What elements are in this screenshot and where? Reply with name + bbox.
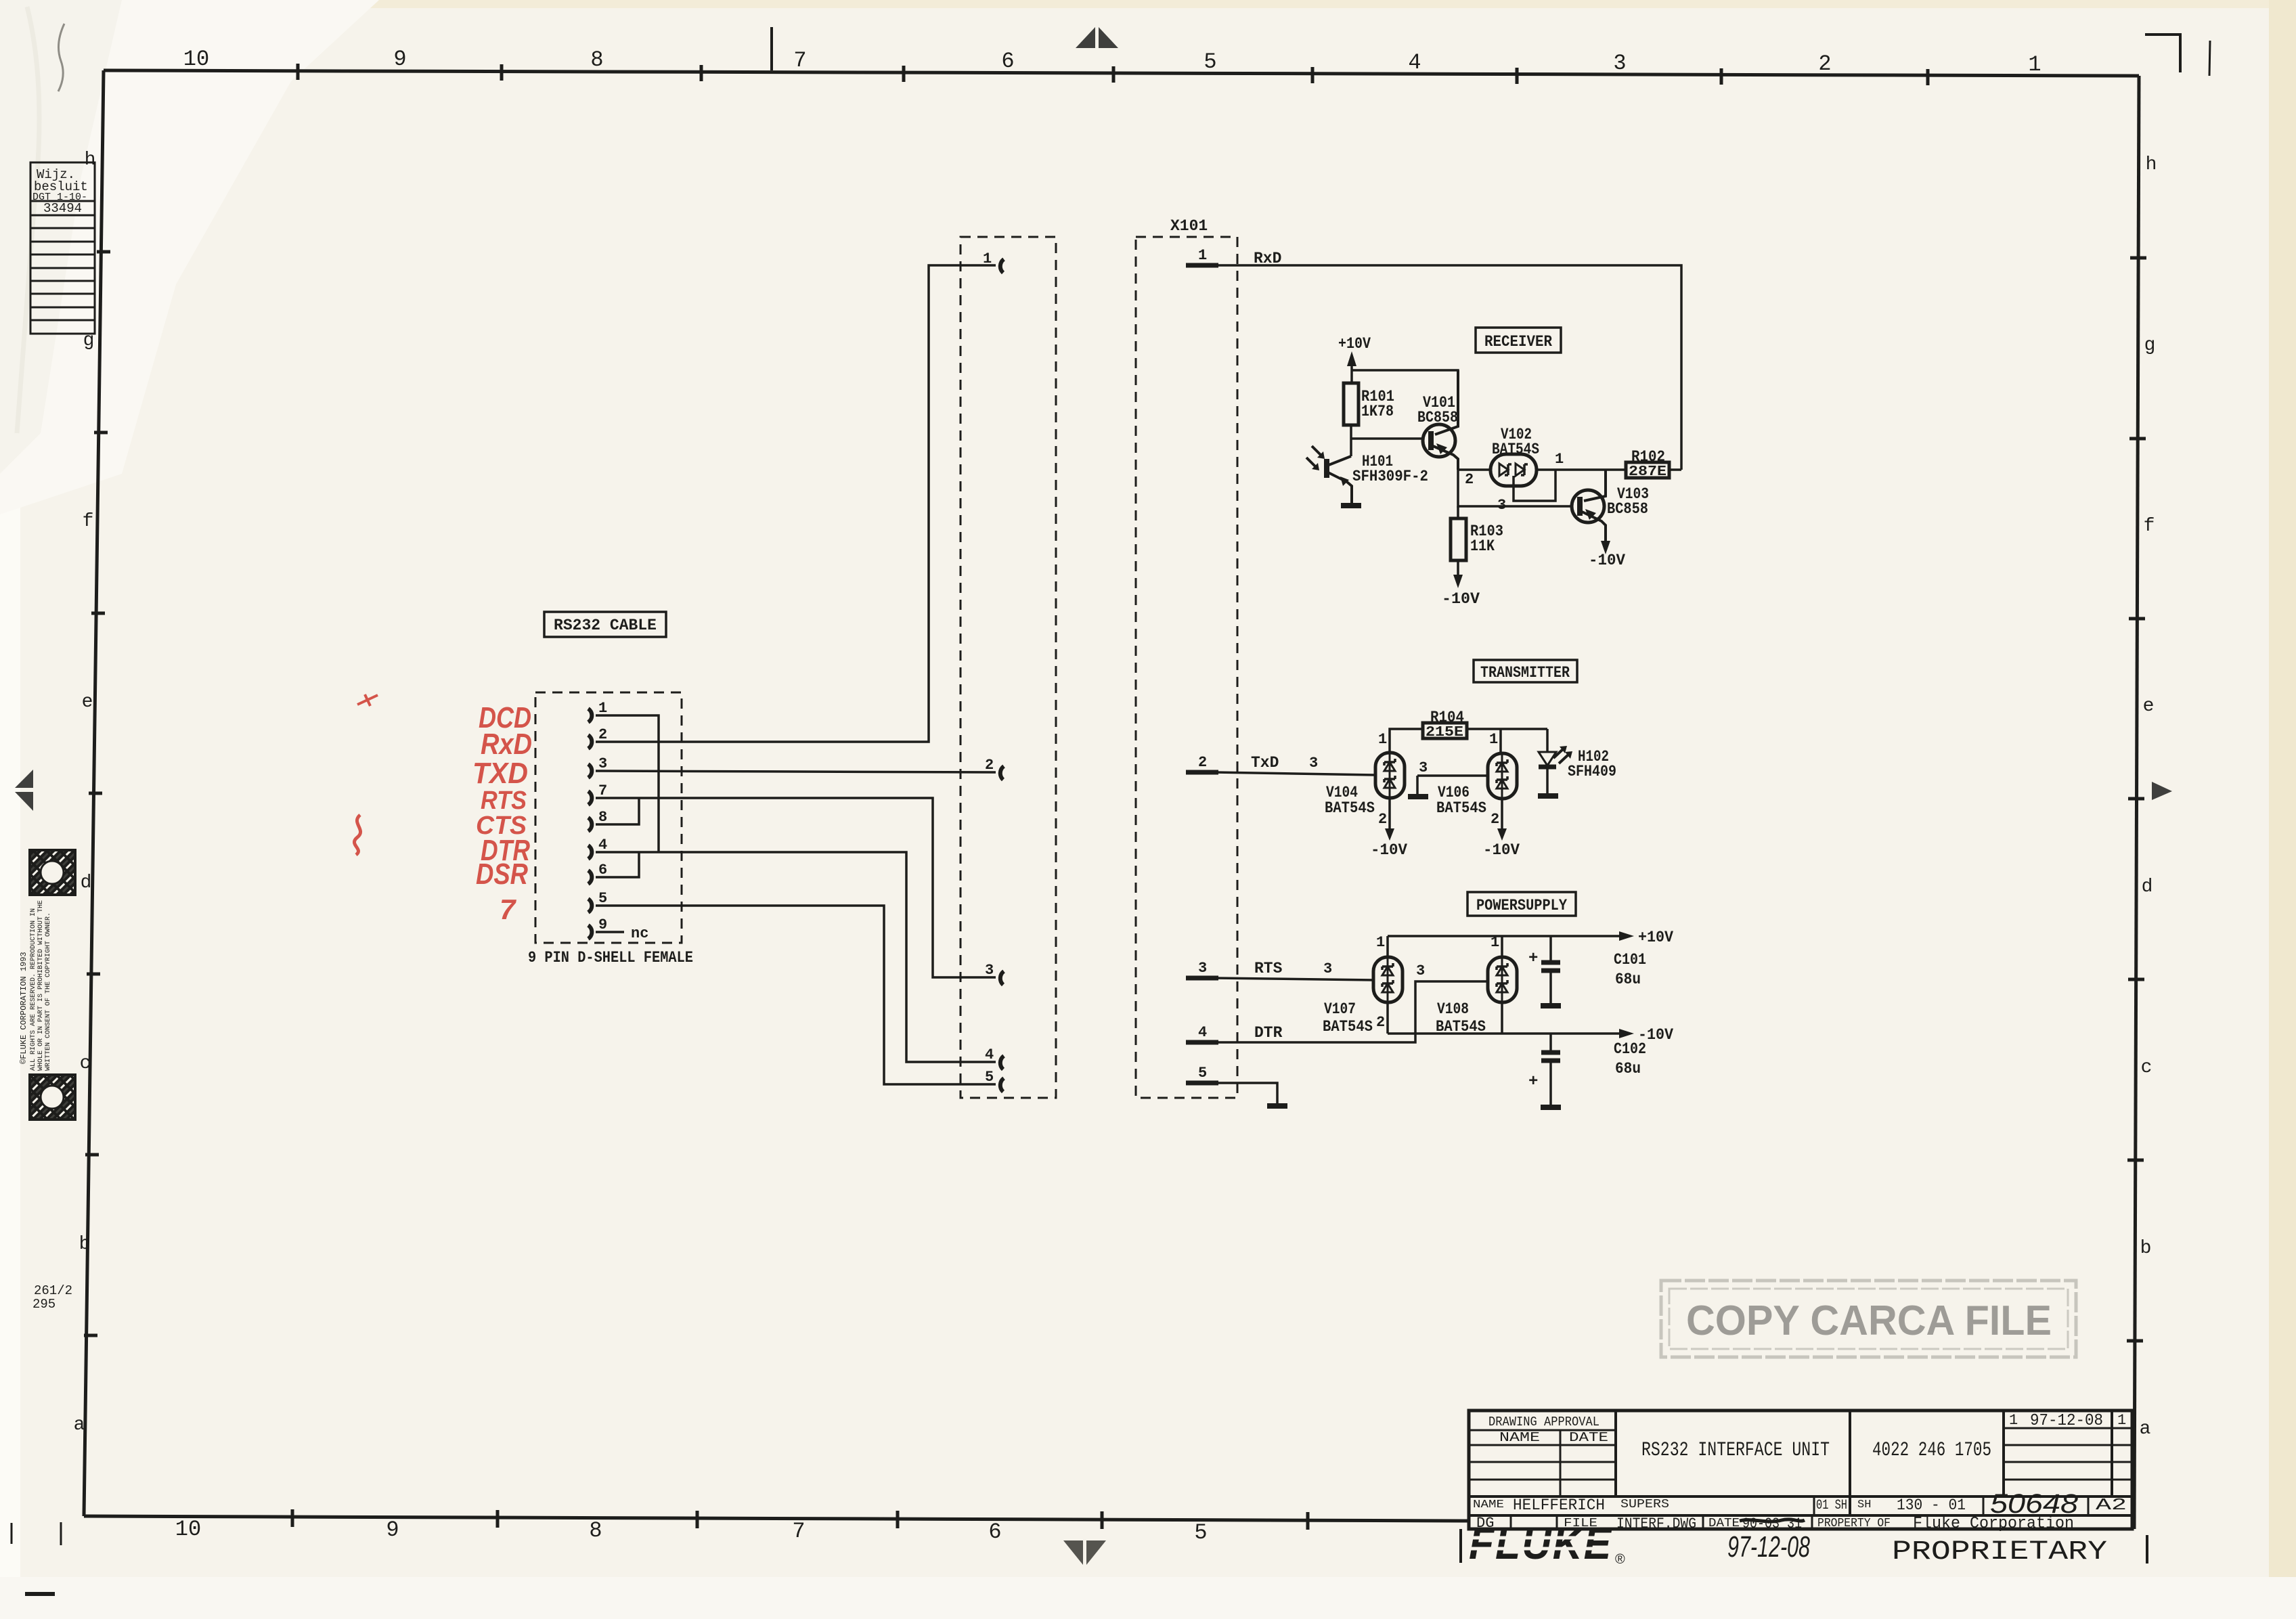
svg-text:1K78: 1K78 xyxy=(1361,403,1394,420)
wire R103 to -10V xyxy=(1457,560,1459,575)
svg-text:BAT54S: BAT54S xyxy=(1436,799,1486,817)
right zone letters xyxy=(2140,154,2157,1440)
svg-text:4022 246 1705: 4022 246 1705 xyxy=(1872,1439,1991,1462)
wire X101 pin1 RxD net to receiver xyxy=(1215,265,1681,470)
D-shell pin 5 xyxy=(588,899,592,912)
wire pin4 to pin6 link xyxy=(596,852,639,877)
svg-text:COPY CARCA FILE: COPY CARCA FILE xyxy=(1686,1298,2052,1344)
svg-text:33494: 33494 xyxy=(43,201,82,216)
wire pin7 to pin8 link xyxy=(596,798,639,824)
bottom row dividers xyxy=(1511,1515,1812,1529)
copyright notice (rotated) xyxy=(19,900,52,1071)
svg-text:WRITTEN CONSENT OF THE COPYRIG: WRITTEN CONSENT OF THE COPYRIGHT OWNER. xyxy=(45,912,52,1071)
svg-text:DTR: DTR xyxy=(1254,1024,1283,1042)
svg-text:295: 295 xyxy=(32,1297,56,1312)
capacitor C102 xyxy=(1549,1034,1552,1051)
D-shell pin 1 xyxy=(588,709,592,722)
svg-text:5: 5 xyxy=(1198,1065,1207,1082)
svg-text:-10V: -10V xyxy=(1442,590,1480,608)
D-shell pin 7 xyxy=(588,791,592,805)
resistor R101 xyxy=(1344,383,1359,425)
wire R104 to V106 pin1 and H102 xyxy=(1467,728,1547,730)
FLUKE logo xyxy=(1467,1518,1625,1569)
svg-text:ALL RIGHTS ARE RESERVED. REPRO: ALL RIGHTS ARE RESERVED. REPRODUCTION IN xyxy=(30,908,37,1071)
svg-text:68u: 68u xyxy=(1615,1060,1641,1078)
svg-text:+: + xyxy=(1528,950,1538,968)
wire X101 pin5 to ground xyxy=(1215,1083,1277,1104)
svg-text:130 - 01: 130 - 01 xyxy=(1897,1496,1966,1514)
connector X101 (dashed outline) xyxy=(1136,237,1237,1098)
top centre arrows xyxy=(1076,27,1095,48)
svg-text:9: 9 xyxy=(386,1517,399,1543)
wire D-shell pin7 to cable pin3 xyxy=(596,798,996,977)
wire V104 pin2 to -10V xyxy=(1388,798,1391,828)
wire D-shell pin3 to cable pin2 xyxy=(596,771,996,772)
revision table top-left xyxy=(30,162,95,334)
right border ticks xyxy=(2127,258,2146,1341)
wire D-shell pin1 to pin4 junction xyxy=(596,715,659,852)
svg-text:97-12-08: 97-12-08 xyxy=(2030,1412,2103,1430)
svg-text:4: 4 xyxy=(1408,50,1421,75)
svg-text:9: 9 xyxy=(393,47,406,72)
svg-text:NAME: NAME xyxy=(1473,1499,1504,1511)
svg-text:c: c xyxy=(80,1053,91,1074)
wire X101 pin4 DTR to V108 pin3 xyxy=(1215,981,1488,1042)
svg-text:3: 3 xyxy=(1198,960,1207,977)
svg-text:SFH309F-2: SFH309F-2 xyxy=(1352,468,1428,485)
svg-text:TxD: TxD xyxy=(1251,754,1279,772)
wire V106 pin3 to ground xyxy=(1417,774,1488,777)
title block texts xyxy=(1473,1412,2127,1533)
svg-text:g: g xyxy=(2144,335,2156,356)
D-shell pin 8 xyxy=(588,818,592,831)
svg-text:nc: nc xyxy=(631,925,648,942)
svg-text:TXD: TXD xyxy=(472,757,528,790)
svg-text:a: a xyxy=(74,1415,85,1436)
svg-text:4: 4 xyxy=(985,1046,994,1063)
svg-text:287E: 287E xyxy=(1629,464,1666,480)
svg-text:X101: X101 xyxy=(1170,217,1208,235)
svg-text:SUPERS: SUPERS xyxy=(1620,1498,1669,1511)
svg-text:e: e xyxy=(82,692,93,713)
svg-text:1: 1 xyxy=(2009,1412,2018,1429)
wire V101 emitter node 2 xyxy=(1458,468,1491,471)
svg-text:®: ® xyxy=(1615,1552,1625,1567)
dual diode V106 BAT54S xyxy=(1488,753,1517,799)
X101 pin 3 stub xyxy=(1186,976,1218,981)
svg-text:+10V: +10V xyxy=(1638,929,1673,946)
bottom centre arrows xyxy=(1063,1540,1083,1565)
svg-text:2: 2 xyxy=(985,757,994,774)
svg-text:V108: V108 xyxy=(1437,1000,1469,1018)
red tick mark xyxy=(357,694,378,706)
svg-text:2: 2 xyxy=(1818,51,1831,76)
svg-text:RECEIVER: RECEIVER xyxy=(1484,333,1552,351)
wire D-shell pin5 to cable pin5 xyxy=(596,906,996,1084)
svg-text:1: 1 xyxy=(983,250,992,267)
ground H102 xyxy=(1538,793,1558,799)
FLUKE logo separator xyxy=(1459,1529,1462,1563)
dual diode V102 BAT54S xyxy=(1491,454,1537,486)
X101 pin 4 stub xyxy=(1186,1040,1218,1045)
hatched square upper xyxy=(30,850,75,895)
wire V106 pin2 to -10V xyxy=(1501,799,1503,828)
svg-text:261/2: 261/2 xyxy=(34,1283,72,1298)
transistor V101 BC858 (PNP) xyxy=(1423,424,1455,457)
svg-text:7: 7 xyxy=(792,1519,805,1544)
resistor R102 xyxy=(1626,462,1669,478)
svg-text:BAT54S: BAT54S xyxy=(1436,1018,1486,1036)
svg-text:BC858: BC858 xyxy=(1607,500,1648,518)
svg-text:Fluke Corporation: Fluke Corporation xyxy=(1913,1515,2074,1533)
ground H101 emitter xyxy=(1341,503,1361,508)
svg-text:3: 3 xyxy=(1309,755,1318,772)
svg-text:3: 3 xyxy=(1613,51,1626,76)
svg-text:BAT54S: BAT54S xyxy=(1325,799,1375,817)
wire V107 pin2 to -10V rail xyxy=(1386,1002,1389,1034)
left edge centre arrow xyxy=(15,770,33,788)
svg-text:68u: 68u xyxy=(1615,971,1641,988)
svg-text:f: f xyxy=(83,511,94,532)
svg-text:5: 5 xyxy=(1194,1520,1207,1545)
svg-text:RS232 CABLE: RS232 CABLE xyxy=(554,617,657,634)
svg-text:©FLUKE CORPORATION 1993: ©FLUKE CORPORATION 1993 xyxy=(19,952,28,1064)
top-right corner register mark xyxy=(2145,35,2180,72)
svg-text:97-12-08: 97-12-08 xyxy=(1727,1530,1810,1563)
scribble over date xyxy=(1740,1520,1805,1522)
-10V arrow V106 xyxy=(1497,828,1507,841)
svg-text:C102: C102 xyxy=(1614,1040,1646,1058)
drawing frame border xyxy=(104,70,2139,76)
svg-text:V107: V107 xyxy=(1324,1000,1356,1018)
svg-text:R104: R104 xyxy=(1430,709,1464,726)
svg-text:2: 2 xyxy=(1376,1014,1385,1031)
connector cable-side (dashed outline) xyxy=(961,237,1056,1098)
ground C102 xyxy=(1541,1105,1561,1110)
X101 pin 5 stub xyxy=(1186,1081,1218,1086)
svg-text:10: 10 xyxy=(183,47,209,72)
+10V rail xyxy=(1388,935,1619,937)
-10V arrow V104 xyxy=(1385,828,1394,841)
svg-text:RS232 INTERFACE UNIT: RS232 INTERFACE UNIT xyxy=(1641,1439,1830,1462)
resistor R103 xyxy=(1451,518,1466,560)
pin 9 nc stub xyxy=(596,931,624,933)
svg-text:3: 3 xyxy=(598,755,607,772)
dual diode V104 BAT54S xyxy=(1375,753,1405,798)
svg-text:1: 1 xyxy=(1491,934,1499,951)
bottom zone numbers xyxy=(175,1517,1208,1545)
svg-text:2: 2 xyxy=(1465,471,1474,488)
svg-text:A2: A2 xyxy=(2096,1496,2127,1515)
svg-text:2: 2 xyxy=(1378,811,1387,828)
svg-text:RTS: RTS xyxy=(1254,960,1283,977)
svg-text:h: h xyxy=(2146,154,2157,175)
D-shell pin 6 xyxy=(588,870,592,884)
svg-text:1: 1 xyxy=(1489,731,1498,748)
wire R101 to base node xyxy=(1350,425,1352,439)
svg-text:WHOLE OR IN PART IS PROHIBITED: WHOLE OR IN PART IS PROHIBITED WITHOUT T… xyxy=(37,900,45,1071)
X101 pin 2 stub xyxy=(1186,770,1218,775)
svg-text:DSR: DSR xyxy=(476,858,528,891)
svg-text:7: 7 xyxy=(793,48,806,73)
svg-text:PROPRIETARY: PROPRIETARY xyxy=(1892,1537,2107,1568)
svg-text:215E: 215E xyxy=(1426,725,1463,740)
X101 pin 1 stub xyxy=(1186,263,1218,268)
dual diode V108 BAT54S xyxy=(1488,957,1517,1002)
svg-text:6: 6 xyxy=(988,1520,1001,1545)
svg-text:3: 3 xyxy=(985,962,994,979)
wire R102 to RxD riser xyxy=(1669,468,1681,471)
right date rows xyxy=(2004,1428,2132,1480)
svg-text:1: 1 xyxy=(1555,451,1564,468)
svg-text:1: 1 xyxy=(2117,1412,2126,1429)
-10V rail xyxy=(1388,1032,1619,1035)
svg-text:8: 8 xyxy=(590,47,603,72)
wire V104 pin1 to R104 xyxy=(1390,729,1423,753)
svg-text:2: 2 xyxy=(1491,811,1499,828)
transistor V103 BC858 (PNP) xyxy=(1572,490,1604,523)
wire +10V node to R101 and V101 collector xyxy=(1352,370,1458,425)
phototransistor H101 SFH309F-2 xyxy=(1324,459,1329,478)
wire D-shell pin4 to cable pin4 xyxy=(596,852,996,1062)
svg-text:1: 1 xyxy=(2028,52,2041,77)
ground V106 pin3 xyxy=(1408,794,1428,799)
row dividers SH / 50648 / A2 xyxy=(1814,1496,2088,1515)
svg-text:11K: 11K xyxy=(1470,537,1495,555)
svg-text:INTERF.DWG: INTERF.DWG xyxy=(1616,1515,1696,1532)
svg-text:RxD: RxD xyxy=(481,728,532,761)
capacitor C101 xyxy=(1549,936,1552,961)
wire V102 pin3 loop to node 1 xyxy=(1514,470,1555,501)
svg-text:NAME: NAME xyxy=(1499,1430,1540,1445)
top zone numbers xyxy=(183,47,2041,77)
H101 light arrows xyxy=(1306,446,1322,468)
svg-text:-10V: -10V xyxy=(1371,841,1407,859)
svg-text:a: a xyxy=(2140,1419,2151,1440)
svg-text:9 PIN D-SHELL FEMALE: 9 PIN D-SHELL FEMALE xyxy=(528,949,693,967)
svg-text:5: 5 xyxy=(985,1069,994,1086)
svg-text:01 SH: 01 SH xyxy=(1816,1498,1847,1513)
wire V108 pin2 to -10V rail xyxy=(1501,1002,1503,1034)
RECEIVER section label box xyxy=(1476,328,1561,353)
top border ticks xyxy=(298,64,1928,85)
svg-text:R102: R102 xyxy=(1631,448,1665,466)
wire X101 pin2 TxD to V104 pin3 xyxy=(1215,772,1375,775)
svg-text:7: 7 xyxy=(500,893,516,925)
-10V arrow R103 xyxy=(1453,575,1463,588)
svg-text:e: e xyxy=(2143,696,2155,717)
svg-text:BC858: BC858 xyxy=(1417,409,1458,426)
cable pin 1 xyxy=(1000,259,1004,273)
ground C101 xyxy=(1541,1003,1561,1008)
left zone letters xyxy=(74,150,96,1436)
svg-text:5: 5 xyxy=(1204,49,1216,74)
svg-text:b: b xyxy=(2140,1238,2152,1259)
LED H102 SFH409 xyxy=(1546,750,1549,753)
wire V107 pin1 xyxy=(1386,936,1389,957)
D-shell pin 4 xyxy=(588,845,592,859)
wire base node down to H101 xyxy=(1350,439,1352,456)
svg-text:3: 3 xyxy=(1419,759,1428,776)
cable pin 2 xyxy=(1000,766,1004,780)
wire D-shell pin2 to cable pin1 xyxy=(596,265,996,742)
title block outline xyxy=(1469,1411,2132,1529)
svg-text:FLUKE: FLUKE xyxy=(1469,1518,1612,1569)
top centre fold mark line xyxy=(770,27,773,70)
ground X101 pin5 xyxy=(1267,1103,1287,1109)
D-shell pin 3 xyxy=(588,764,592,778)
TRANSMITTER section label box xyxy=(1474,660,1577,682)
bottom border ticks xyxy=(292,1509,1308,1530)
svg-text:6: 6 xyxy=(1001,49,1014,74)
svg-text:b: b xyxy=(79,1234,91,1255)
svg-text:TRANSMITTER: TRANSMITTER xyxy=(1480,664,1570,682)
COPY CARCA FILE stamp xyxy=(1661,1281,2076,1357)
left border ticks xyxy=(84,252,110,1335)
POWERSUPPLY section label box xyxy=(1467,892,1576,916)
svg-text:HELFFERICH: HELFFERICH xyxy=(1513,1496,1605,1514)
title block verticals xyxy=(1616,1411,2112,1515)
svg-text:1: 1 xyxy=(1198,247,1207,264)
svg-text:DATE: DATE xyxy=(1569,1430,1608,1445)
svg-text:1: 1 xyxy=(1378,731,1387,748)
svg-text:4: 4 xyxy=(1198,1024,1207,1041)
svg-text:BAT54S: BAT54S xyxy=(1323,1018,1373,1036)
hatched square lower xyxy=(30,1075,75,1119)
svg-text:-10V: -10V xyxy=(1483,841,1520,859)
wire emitter node down to V103 base and R103 xyxy=(1458,470,1572,506)
D-shell pin 9 xyxy=(588,925,592,939)
wire X101 pin3 RTS to V107 pin3 xyxy=(1215,978,1374,980)
svg-text:C101: C101 xyxy=(1614,951,1646,969)
svg-text:BAT54S: BAT54S xyxy=(1492,441,1539,458)
connector X1 9-pin D-shell (dashed outline) xyxy=(535,692,682,943)
svg-text:3: 3 xyxy=(1416,962,1425,979)
+10V supply arrow xyxy=(1347,351,1356,366)
wire V108 pin1 xyxy=(1501,936,1503,957)
-10V arrow V103 emitter xyxy=(1601,541,1610,554)
wire V102 pin1 to R102 xyxy=(1537,468,1626,471)
D-shell pin 2 xyxy=(588,735,592,749)
H102 light arrows xyxy=(1553,749,1569,763)
right short mark xyxy=(2146,1535,2148,1563)
wire base node to V101 base xyxy=(1351,437,1423,440)
svg-text:1: 1 xyxy=(1376,934,1385,951)
svg-text:DRAWING APPROVAL: DRAWING APPROVAL xyxy=(1488,1415,1599,1429)
svg-text:d: d xyxy=(81,872,92,893)
svg-text:+: + xyxy=(1528,1073,1538,1091)
svg-text:PROPERTY OF: PROPERTY OF xyxy=(1817,1517,1891,1530)
svg-text:8: 8 xyxy=(589,1518,602,1543)
top-right short mark xyxy=(2209,41,2210,76)
svg-text:10: 10 xyxy=(175,1517,201,1542)
svg-text:RTS: RTS xyxy=(481,786,527,815)
svg-text:2: 2 xyxy=(1198,754,1207,771)
dual diode V107 BAT54S xyxy=(1373,957,1403,1002)
RS232 CABLE label box xyxy=(544,612,666,637)
cable pin 4 xyxy=(1000,1056,1004,1069)
svg-text:d: d xyxy=(2142,877,2153,897)
svg-text:DATE: DATE xyxy=(1708,1517,1740,1530)
svg-text:POWERSUPPLY: POWERSUPPLY xyxy=(1476,897,1567,914)
svg-text:3: 3 xyxy=(1497,497,1506,514)
svg-text:c: c xyxy=(2141,1057,2152,1078)
svg-text:SH: SH xyxy=(1857,1499,1871,1511)
resistor R104 xyxy=(1423,723,1467,738)
sheet size note xyxy=(32,1283,72,1312)
bottom-left stray marks xyxy=(12,1522,61,1545)
svg-text:+10V: +10V xyxy=(1338,335,1371,353)
svg-text:3: 3 xyxy=(1323,960,1332,977)
red squiggle xyxy=(354,815,360,855)
cable pin 5 xyxy=(1000,1078,1004,1092)
svg-text:SFH409: SFH409 xyxy=(1568,763,1616,780)
svg-text:-10V: -10V xyxy=(1589,552,1625,569)
drawing approval rows xyxy=(1469,1430,1616,1496)
right edge centre arrow xyxy=(2152,782,2172,800)
cable pin 3 xyxy=(1000,971,1004,985)
title block horizontals xyxy=(1469,1496,2132,1515)
svg-text:f: f xyxy=(2144,516,2155,537)
